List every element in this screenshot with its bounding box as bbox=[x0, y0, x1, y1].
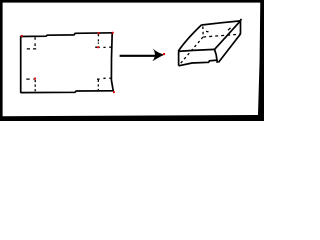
flat sheet rectangle: right edge bbox=[111, 33, 113, 92]
fold mark bottom-right: dashed vertical bbox=[97, 80, 99, 90]
frame top border bbox=[0, 0, 264, 3]
fold mark top-left: dashed horizontal bbox=[27, 48, 36, 50]
box top face right short edge bbox=[215, 21, 241, 50]
red dot on top edge at fold line bbox=[98, 32, 100, 34]
stray dash near box right bbox=[206, 28, 231, 32]
fold mark bottom-left: dashed horizontal bbox=[26, 78, 34, 80]
box left vertical edge bbox=[178, 52, 180, 66]
red dot bottom-left fold corner bbox=[34, 78, 36, 80]
frame left border bbox=[0, 0, 3, 121]
red dot sheet bottom-right corner bbox=[113, 91, 115, 93]
box hidden bottom left edge dashed bbox=[179, 37, 203, 65]
fold mark bottom-right: dashed horizontal bbox=[97, 78, 111, 79]
fold mark top-left: dashed vertical bbox=[34, 37, 36, 47]
box hidden vertical edge dashed bbox=[202, 27, 204, 37]
red dot arrow tip bbox=[163, 53, 165, 55]
fold mark bottom-left: dashed vertical bbox=[34, 80, 36, 92]
box hidden bottom back edge dashed bbox=[203, 34, 240, 37]
red dot sheet top-right corner bbox=[112, 32, 114, 34]
red dot sheet top-left corner bbox=[21, 35, 23, 37]
box top face back long edge bbox=[202, 21, 241, 25]
box front bottom edge bbox=[179, 60, 218, 66]
box right face bottom edge bbox=[218, 34, 240, 63]
flat sheet rectangle: bottom edge bbox=[21, 91, 114, 93]
fold mark top-right: dashed vertical bbox=[97, 34, 99, 44]
flat sheet rectangle: top edge bbox=[21, 33, 113, 37]
flat sheet rectangle: left edge bbox=[20, 36, 22, 93]
fold mark top-right: dashed horizontal bbox=[95, 46, 111, 48]
arrow shaft bbox=[120, 55, 158, 57]
box top face front long edge bbox=[178, 49, 214, 51]
box top face left short edge bbox=[178, 25, 201, 51]
box front right vertical edge bbox=[215, 49, 218, 63]
red dot top-right fold corner bbox=[97, 46, 99, 48]
frame bottom border bbox=[0, 115, 264, 121]
box right vertical edge bbox=[240, 19, 241, 34]
arrow head bbox=[152, 49, 164, 62]
frame right border bbox=[258, 0, 264, 121]
